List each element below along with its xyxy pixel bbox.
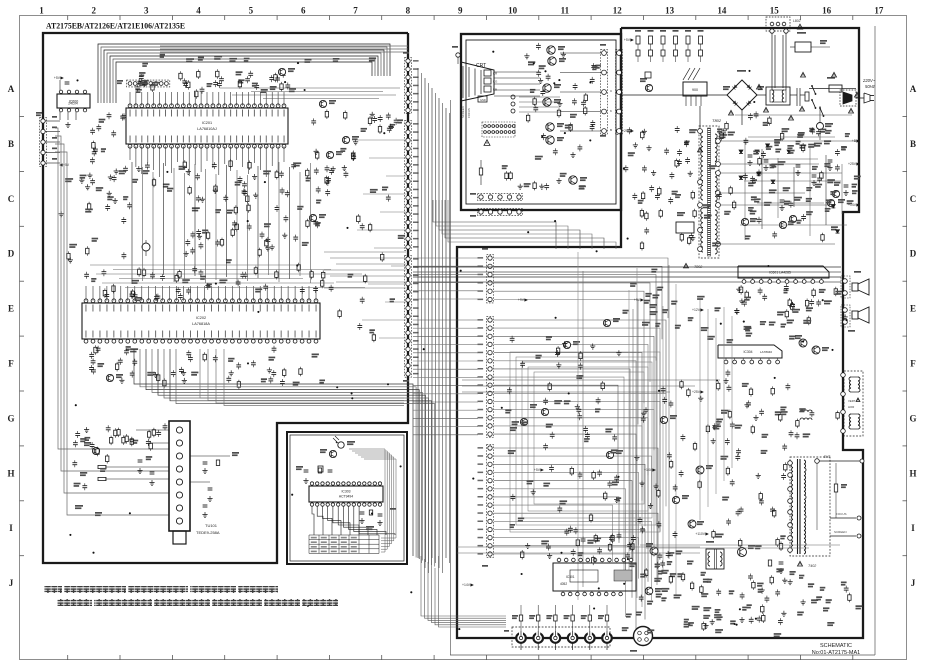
svg-text:+14V: +14V	[644, 468, 653, 472]
RCA resistors row	[519, 615, 522, 621]
audio transistor V602	[812, 346, 820, 354]
transistor V303	[541, 408, 548, 415]
components below IC301 right	[661, 597, 666, 599]
keyboard IC303	[309, 486, 383, 502]
AC plug body	[840, 90, 856, 106]
center scattered components	[583, 427, 588, 429]
warning triangles power area	[757, 84, 762, 89]
svg-text:+14V: +14V	[462, 583, 471, 587]
audio transistor V605	[645, 587, 653, 595]
svg-text:I: I	[9, 523, 13, 533]
svg-text:EHT: EHT	[824, 455, 830, 459]
heater coils	[800, 410, 812, 412]
opto coupler IC802	[676, 222, 694, 233]
svg-text:+5V: +5V	[624, 38, 631, 42]
svg-text:17: 17	[874, 6, 884, 16]
svg-text:1: 1	[39, 6, 44, 16]
svg-text:H: H	[7, 468, 14, 478]
components right mid area	[316, 153, 319, 159]
svg-text:H: H	[909, 468, 916, 478]
video amp transistor V506	[546, 136, 554, 144]
svg-text:13: 13	[665, 6, 675, 16]
CRT block bottom parts	[519, 184, 521, 187]
long gray horizontals row F in BR block	[462, 379, 720, 381]
svg-text:LA76818A: LA76818A	[192, 322, 210, 326]
svg-text:D: D	[8, 249, 15, 259]
left block right edge connector strip group3	[405, 256, 412, 378]
secondary caps	[748, 154, 753, 156]
CRT gnd box	[478, 96, 487, 102]
relay box S801	[795, 42, 811, 52]
vertical interconnects between IC201 and IC202	[131, 162, 133, 284]
flyback bottom cap	[779, 561, 784, 563]
horizontal wires above IC201 right	[220, 87, 400, 89]
connector P301 row	[127, 80, 170, 87]
channel vertical wire bundle	[417, 68, 419, 558]
power label scatter right	[650, 311, 658, 313]
svg-text:24C04: 24C04	[68, 102, 78, 106]
warning triangle crt	[484, 140, 490, 146]
transistor V201	[278, 68, 285, 75]
svg-text:G: G	[909, 413, 916, 423]
extra transistors bottom right	[660, 416, 667, 423]
svg-text:SCREEN: SCREEN	[834, 530, 847, 534]
audio transistor V601	[799, 339, 807, 347]
long power rails to psu	[413, 266, 841, 268]
secondary labels	[834, 182, 840, 184]
vertical IC301 LA78040	[718, 345, 782, 358]
CRT cathode boxes	[484, 70, 491, 76]
svg-text:+5V: +5V	[534, 468, 541, 472]
components above IC301	[578, 552, 584, 554]
mid labels	[769, 322, 776, 324]
transistor V204	[326, 151, 333, 158]
inner margin border	[874, 26, 876, 655]
video amp transistor V502	[548, 57, 556, 65]
gray horizontals inside left block	[90, 264, 300, 266]
SMPS transformer T802	[699, 126, 719, 258]
transistor V302	[563, 341, 570, 348]
fusible resistor row	[635, 30, 641, 32]
svg-text:C: C	[910, 194, 917, 204]
P50 pin top left	[456, 53, 460, 57]
cluster left of IC201	[92, 151, 97, 153]
grid row ticks left	[20, 116, 25, 118]
svg-text:HOR: HOR	[848, 405, 854, 409]
degauss connector L802	[766, 17, 790, 31]
svg-text:IC202: IC202	[196, 316, 206, 320]
transistor V301	[603, 319, 610, 326]
svg-text:7: 7	[353, 6, 358, 16]
svg-text:6: 6	[301, 6, 306, 16]
grid row ticks right	[903, 116, 908, 118]
CRT block resistors right	[569, 125, 572, 131]
svg-text:14: 14	[717, 6, 727, 16]
small transistor V801	[645, 84, 652, 91]
center scattered components lower	[592, 473, 595, 479]
svg-text:T802: T802	[712, 118, 722, 123]
thermistor	[817, 123, 824, 130]
main connector column group3	[487, 445, 494, 558]
keyboard fan wires	[312, 506, 314, 535]
left strip inward wires	[352, 139, 406, 141]
audio components below	[790, 304, 795, 306]
svg-text:+9V: +9V	[518, 298, 525, 302]
grid column ticks top	[67, 16, 69, 21]
svg-text:FOCUS: FOCUS	[467, 108, 471, 118]
audio IC601 LA4285	[738, 266, 829, 278]
svg-text:8: 8	[406, 6, 411, 16]
extra wires bottom audio	[640, 544, 840, 546]
svg-text:IC301: IC301	[566, 575, 575, 579]
svg-text:SCHEMATIC: SCHEMATIC	[820, 643, 852, 649]
main connector column group1	[487, 255, 494, 303]
CRT socket pin rows	[482, 122, 515, 137]
speaker bottom	[841, 305, 850, 327]
main connector column group2	[487, 317, 494, 438]
transistor V206	[106, 374, 113, 381]
power wires mesh top	[621, 94, 727, 96]
svg-text:J: J	[911, 578, 916, 588]
svg-text:+110V: +110V	[695, 532, 705, 536]
CRT right connector column P504	[616, 50, 623, 135]
svg-text:T402: T402	[808, 564, 816, 568]
horizontal interconnects right of IC202	[324, 251, 406, 253]
svg-text:TU101: TU101	[205, 523, 218, 528]
components mid area ceramic filters	[313, 221, 318, 223]
hdrive transformer T401	[706, 549, 724, 569]
svg-text:+9V: +9V	[634, 298, 641, 302]
svg-text:2: 2	[92, 6, 97, 16]
keyboard wrap bundle right	[349, 449, 385, 552]
power and deflection board outline	[457, 28, 863, 638]
flyback label	[798, 561, 803, 566]
svg-text:11: 11	[561, 6, 570, 16]
svg-text:IC201: IC201	[202, 121, 212, 125]
svg-text:ACT9494: ACT9494	[339, 495, 353, 499]
tuner agc wires	[136, 429, 169, 431]
components left mid	[107, 196, 113, 198]
svg-text:+B: +B	[852, 139, 857, 143]
junction dots	[247, 362, 249, 364]
transistor V507	[569, 176, 577, 184]
svg-text:B: B	[610, 128, 612, 132]
horizontal out transistor V402	[738, 548, 747, 557]
svg-text:GND: GND	[480, 98, 486, 102]
svg-text:I: I	[911, 523, 915, 533]
tuner TU101 body	[169, 421, 190, 531]
connector P508 row1	[478, 194, 523, 201]
keyboard cluster below IC303	[360, 511, 365, 513]
svg-text:A: A	[910, 84, 917, 94]
AC plug symbol	[856, 97, 864, 99]
transistor V203	[342, 136, 349, 143]
wires P101 to tuner	[55, 128, 169, 449]
RCA jack row P903	[512, 627, 610, 647]
left block right edge connector strip group2	[405, 121, 412, 251]
svg-text:E: E	[8, 304, 14, 314]
svg-text:900: 900	[692, 88, 698, 92]
vertical rails center-right	[577, 252, 579, 600]
EHT terminal	[815, 459, 820, 464]
svg-text:C: C	[8, 194, 15, 204]
hdrive components	[676, 550, 683, 552]
wire bundle top to right edge	[160, 45, 408, 47]
secondary transistors	[741, 218, 748, 225]
svg-text:SCREEN: SCREEN	[461, 106, 465, 118]
warning triangle degauss	[797, 24, 802, 29]
left block right edge connector strip group1	[405, 58, 412, 114]
svg-text:A: A	[8, 84, 15, 94]
speaker top	[841, 276, 850, 298]
degauss wires down	[771, 33, 773, 90]
svg-text:No:01-AT2175-MA1: No:01-AT2175-MA1	[812, 650, 861, 656]
connector mesh wires into block	[494, 258, 668, 318]
yoke connector P401	[844, 371, 863, 436]
main IC201 LA76810A	[126, 108, 288, 144]
components below IC201	[195, 175, 200, 177]
bundle lower second group	[200, 349, 404, 398]
svg-text:4: 4	[196, 6, 201, 16]
svg-text:50Hz: 50Hz	[865, 84, 876, 89]
svg-text:15: 15	[770, 6, 780, 16]
svg-text:L802: L802	[793, 19, 801, 23]
audio drive transistor V603	[650, 547, 658, 555]
video amp transistor V505	[546, 123, 554, 131]
secondary diodes	[739, 150, 743, 153]
secondary vertical rails	[744, 140, 746, 240]
channel bundle bottom turn to jacks	[421, 556, 506, 616]
crystal X201	[142, 243, 150, 251]
svg-text:9: 9	[458, 6, 463, 16]
connector P508 row2	[478, 209, 523, 216]
IC303 pins	[310, 482, 313, 485]
svg-text:K: K	[610, 109, 612, 113]
tuner right components	[190, 455, 230, 457]
CRT board outline	[461, 34, 621, 210]
big nested wire loops center	[510, 352, 660, 532]
keyboard small parts	[318, 468, 321, 473]
svg-text:LA78040: LA78040	[760, 350, 772, 354]
svg-text:LA76810AJ: LA76810AJ	[197, 127, 217, 131]
svg-text:+25V: +25V	[692, 390, 701, 394]
svg-text:J: J	[9, 578, 14, 588]
svg-text:KG: KG	[493, 80, 498, 84]
extra labels left block	[214, 56, 222, 58]
note text chinese line1	[44, 586, 278, 593]
svg-text:E: E	[910, 304, 916, 314]
svg-text:IC303: IC303	[341, 490, 350, 494]
video amp transistor V504	[543, 98, 551, 106]
svg-text:+5V: +5V	[54, 76, 61, 80]
svg-text:+25V: +25V	[622, 129, 631, 133]
STR regulator IC801	[683, 82, 707, 96]
components left of flyback	[759, 494, 762, 500]
main board outline left block	[43, 33, 408, 563]
wire bundle below IC202	[134, 349, 413, 556]
STR IC801 heatsink	[683, 68, 690, 80]
components below IC202	[226, 377, 231, 379]
components above IC201	[179, 73, 182, 79]
components above IC202	[200, 276, 206, 278]
IC201 top pin stubs	[129, 92, 131, 106]
transistor V604	[688, 520, 696, 528]
svg-text:IC304: IC304	[743, 350, 752, 354]
flyback right components	[834, 484, 837, 492]
note text chinese line2	[57, 599, 338, 606]
transistor V202	[319, 100, 326, 107]
svg-text:F: F	[8, 359, 14, 369]
bridge rectifier D801-D804	[727, 80, 757, 110]
transistor V304	[520, 418, 527, 425]
components left of transformer	[649, 187, 654, 189]
tuner left extra parts	[133, 440, 138, 442]
svg-text:TEDE9-258A: TEDE9-258A	[196, 530, 220, 535]
CRT gun trapezoid	[461, 62, 494, 101]
keyboard matrix table	[309, 535, 379, 553]
keyboard transistor V951	[329, 450, 336, 457]
CRT pin numbers	[511, 95, 515, 99]
svg-text:AT2175EB/AT2126E/AT21E106/AT21: AT2175EB/AT2126E/AT21E106/AT2135E	[46, 21, 185, 31]
svg-text:F: F	[910, 359, 916, 369]
svg-text:FOCUS: FOCUS	[836, 512, 847, 516]
svg-text:VERT: VERT	[848, 399, 856, 403]
second IC202 video chroma	[82, 303, 320, 339]
IC302 4052 switch	[553, 563, 636, 591]
extra density bottom right	[698, 482, 701, 488]
svg-text:5: 5	[249, 6, 254, 16]
svg-text:12: 12	[613, 6, 623, 16]
h rails bottom	[457, 546, 700, 548]
keyboard board outline	[287, 432, 407, 564]
eeprom IC600 24C04	[57, 94, 90, 108]
tuner left components	[92, 447, 99, 454]
tuner pins	[176, 427, 182, 433]
CRT wires	[494, 71, 540, 73]
svg-text:+25V: +25V	[848, 162, 857, 166]
heater resistor	[479, 168, 482, 175]
svg-text:B: B	[910, 139, 916, 149]
left edge connector P101	[40, 118, 47, 167]
IR receiver IR101	[338, 442, 344, 448]
transistor V305	[606, 451, 613, 458]
focus screen outputs	[830, 517, 856, 519]
vertical section components	[713, 425, 721, 427]
line filter transformer L801	[766, 87, 790, 105]
bottom right far components	[827, 622, 834, 624]
svg-text:3: 3	[144, 6, 149, 16]
video amp transistor V503	[543, 84, 551, 92]
svg-text:KB: KB	[493, 88, 497, 92]
fuse F801	[829, 85, 842, 92]
grid column ticks bottom	[67, 655, 69, 660]
video amp transistor V501	[547, 46, 555, 54]
secondary rectifier area wires	[720, 140, 856, 142]
svg-text:16: 16	[822, 6, 832, 16]
CRT right connector column P503	[601, 50, 608, 135]
svg-text:IC601 LA4285: IC601 LA4285	[769, 271, 791, 275]
flyback transformer T402	[790, 457, 830, 556]
svg-text:4052: 4052	[560, 582, 567, 586]
IC202 top pin stubs	[85, 286, 87, 301]
IC201 bottom pin stubs	[129, 146, 131, 160]
svg-text:G: G	[7, 413, 14, 423]
gap bundle between CRT and BR block	[433, 200, 556, 249]
svg-text:B: B	[8, 139, 14, 149]
audio out section components	[770, 577, 773, 583]
block left inner rail	[450, 100, 452, 655]
transistor V205	[309, 214, 316, 221]
svg-text:10: 10	[508, 6, 518, 16]
round connector P902	[634, 627, 653, 646]
wire bundle top left	[98, 44, 390, 103]
cross wires left strip to right strip	[413, 257, 478, 259]
svg-text:+12V: +12V	[692, 308, 701, 312]
X capacitors and spark gaps	[796, 88, 798, 106]
svg-text:D: D	[910, 249, 917, 259]
wires crt to connectors	[560, 52, 601, 54]
connector strip P name labels	[403, 52, 409, 54]
svg-text:220V~: 220V~	[862, 78, 876, 83]
